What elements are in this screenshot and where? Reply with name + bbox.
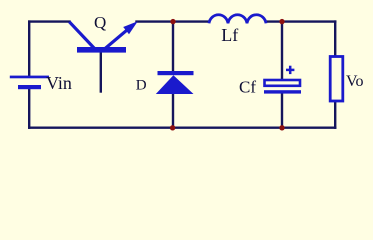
wire diode top [172,22,174,72]
transistor Q collector lead [69,22,94,49]
capacitor Cf plus sign [286,66,294,74]
diode D cathode bar [158,71,194,75]
wire right vertical lower [334,102,336,128]
wire top rail left segment [29,20,69,22]
capacitor Cf top plate [265,80,301,86]
svg-text:Cf: Cf [239,77,256,96]
svg-text:Vo: Vo [346,73,364,90]
node capacitor bottom junction [279,125,284,130]
transistor Q emitter lead [105,25,134,49]
wire left vertical upper [28,22,30,76]
node diode bottom junction [170,125,175,130]
wire capacitor top [281,22,283,80]
wire capacitor bottom [281,93,283,128]
inductor Lf coils [209,15,266,24]
svg-text:Vin: Vin [46,73,72,93]
svg-text:Lf: Lf [221,25,238,45]
wire bottom rail [29,126,335,128]
wire left vertical lower [28,89,30,128]
wire diode bottom [172,94,174,128]
capacitor Cf bottom plate [264,90,301,93]
wire right vertical upper [334,22,336,56]
load resistor Vo box [330,57,343,102]
battery Vin long plate [10,76,49,79]
node diode top junction [170,19,175,24]
wire transistor base lead [100,53,102,92]
svg-text:D: D [136,77,147,93]
transistor Q base bar [77,47,126,53]
wire top rail middle segment [137,20,210,22]
diode D triangle [156,75,194,94]
wire top rail right segment [266,20,335,22]
node capacitor top junction [279,19,284,24]
battery Vin short plate [18,85,41,89]
svg-text:Q: Q [94,13,106,32]
transistor Q emitter arrowhead [123,21,138,34]
